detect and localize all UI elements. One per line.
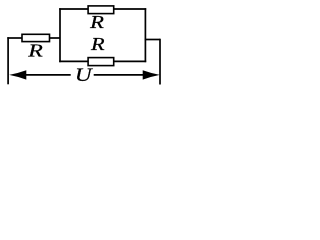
U voltage label <box>75 66 94 86</box>
resistor R3 (left series box) <box>22 34 50 41</box>
U arrow right shaft <box>94 74 150 76</box>
U arrow left head <box>9 70 26 79</box>
wire left terminal vertical <box>7 37 9 84</box>
R3 value label <box>27 41 43 61</box>
wire top branch left <box>59 8 88 10</box>
wire left lead horizontal <box>7 37 22 39</box>
resistor R1 (top branch box) <box>88 6 114 14</box>
wire parallel right vertical <box>144 8 146 62</box>
R2 value label <box>90 34 105 54</box>
wire from R3 to parallel block <box>50 37 61 39</box>
svg-text:R: R <box>27 41 43 61</box>
wire bottom branch left <box>59 60 88 62</box>
U arrow right head <box>143 70 160 79</box>
svg-text:U: U <box>75 66 94 86</box>
U arrow left shaft <box>20 74 71 76</box>
wire parallel left vertical <box>59 8 61 62</box>
svg-text:R: R <box>90 34 105 54</box>
svg-text:R: R <box>89 12 104 32</box>
R1 value label <box>89 12 104 32</box>
wire top branch right <box>114 8 147 10</box>
resistor R2 (bottom branch box) <box>88 58 114 66</box>
wire right terminal vertical <box>159 39 161 85</box>
wire right connector <box>145 39 160 41</box>
wire bottom branch right <box>114 60 147 62</box>
